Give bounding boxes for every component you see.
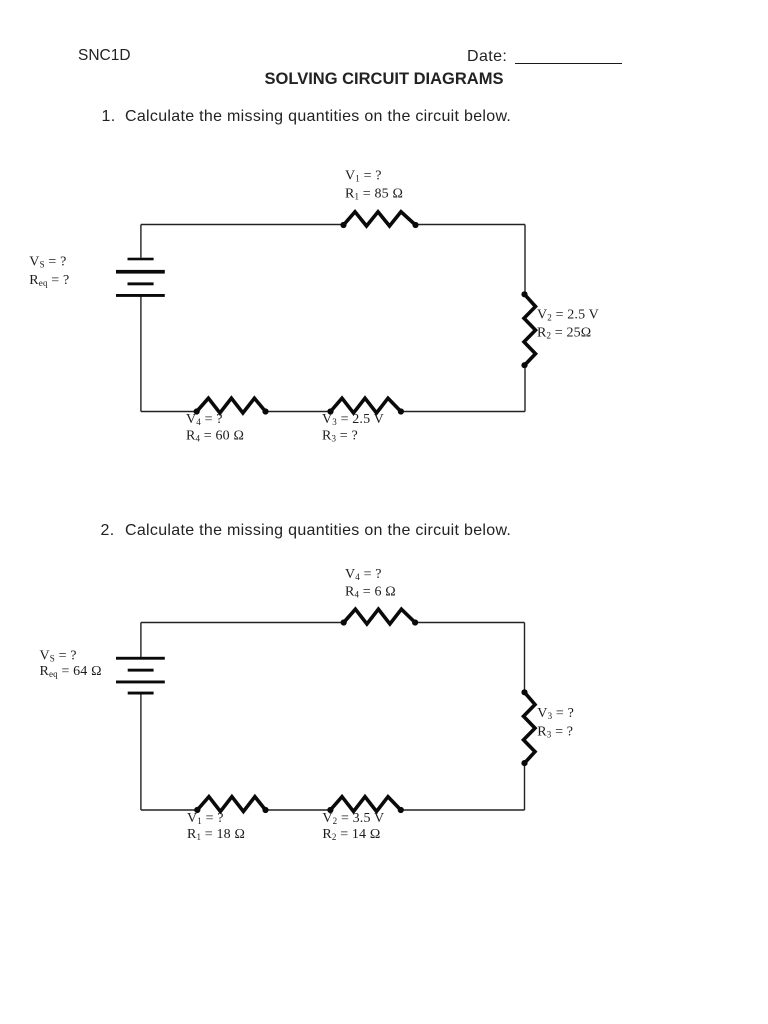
svg-text:V4 = ?: V4 = ? xyxy=(186,412,223,427)
svg-text:VS = ?: VS = ? xyxy=(40,648,77,663)
battery V2 short plate 1 xyxy=(128,669,154,672)
resistor R2 zigzag circuit 2 xyxy=(330,797,400,812)
node dot R4 right circuit 2 xyxy=(412,619,418,625)
wire right lower segment xyxy=(524,763,526,810)
node dot R4 right xyxy=(262,408,268,414)
svg-text:R2 = 14 Ω: R2 = 14 Ω xyxy=(322,827,380,842)
wire right lower segment xyxy=(524,365,526,411)
date blank line xyxy=(515,63,622,64)
node dot R1 left xyxy=(340,222,346,228)
node dot R2 left circuit 2 xyxy=(327,807,333,813)
header Date: xyxy=(467,48,507,66)
svg-text:R1 = 85 Ω: R1 = 85 Ω xyxy=(345,187,403,202)
svg-text:V1 = ?: V1 = ? xyxy=(187,811,224,826)
svg-text:R4 = 60 Ω: R4 = 60 Ω xyxy=(186,429,244,444)
svg-text:R3 = ?: R3 = ? xyxy=(537,725,573,740)
battery V2 long plate 1 xyxy=(116,657,165,660)
wire top-left segment xyxy=(141,622,344,624)
node dot R2 top xyxy=(521,291,527,297)
battery V2 short plate 2 xyxy=(128,692,154,695)
node dot R3 top circuit 2 xyxy=(521,689,527,695)
node dot R3 left xyxy=(327,408,333,414)
wire bottom-right segment xyxy=(401,809,525,811)
wire bottom-right segment xyxy=(401,411,525,413)
resistor R3 zigzag circuit 2 xyxy=(524,692,536,763)
question 1 text xyxy=(102,108,116,126)
wire left upper segment xyxy=(140,623,142,659)
svg-text:V3 = 2.5 V: V3 = 2.5 V xyxy=(322,412,384,427)
resistor R3 zigzag xyxy=(331,398,401,413)
svg-text:V2 = 2.5 V: V2 = 2.5 V xyxy=(537,307,599,322)
resistor R4 zigzag xyxy=(197,398,266,413)
wire top-right segment xyxy=(416,224,526,226)
node dot R2 right circuit 2 xyxy=(398,807,404,813)
wire left lower segment xyxy=(140,693,142,810)
svg-text:V1 = ?: V1 = ? xyxy=(345,169,382,184)
svg-text:V3 = ?: V3 = ? xyxy=(537,706,574,721)
svg-text:R2 = 25Ω: R2 = 25Ω xyxy=(537,325,591,340)
battery V1 long plate 2 xyxy=(116,294,165,297)
node dot R1 right xyxy=(412,222,418,228)
node dot R1 right circuit 2 xyxy=(262,807,268,813)
node dot R3 bottom circuit 2 xyxy=(521,760,527,766)
wire bottom-middle segment xyxy=(266,809,331,811)
resistor R2 zigzag xyxy=(524,294,536,365)
wire bottom-left segment xyxy=(141,411,197,413)
node dot R3 right xyxy=(398,408,404,414)
svg-text:V4 = ?: V4 = ? xyxy=(345,567,382,582)
wire right upper segment xyxy=(524,623,526,693)
svg-text:R3 = ?: R3 = ? xyxy=(322,429,358,444)
svg-text:R1 = 18 Ω: R1 = 18 Ω xyxy=(187,827,245,842)
battery V2 long plate 2 xyxy=(116,681,165,684)
svg-text:R4 = 6 Ω: R4 = 6 Ω xyxy=(345,584,396,599)
svg-text:Req = 64 Ω: Req = 64 Ω xyxy=(40,664,102,679)
title xyxy=(0,70,768,89)
wire bottom-middle segment xyxy=(266,411,331,413)
header course code SNC1D xyxy=(78,47,131,65)
resistor R1 zigzag xyxy=(344,212,416,226)
wire top-right segment xyxy=(415,622,524,624)
node dot R2 bottom xyxy=(521,362,527,368)
wire right upper segment xyxy=(524,225,526,295)
wire left lower segment xyxy=(140,295,142,411)
wire top-left segment xyxy=(141,224,344,226)
battery V1 short plate 2 xyxy=(128,282,154,285)
svg-text:Req = ?: Req = ? xyxy=(29,273,69,288)
wire bottom-left segment xyxy=(141,809,197,811)
question 2 text xyxy=(101,522,115,540)
node dot R4 left xyxy=(194,408,200,414)
svg-text:V2 = 3.5 V: V2 = 3.5 V xyxy=(322,811,384,826)
wire left upper segment xyxy=(140,225,142,258)
resistor R1 zigzag circuit 2 xyxy=(197,797,265,812)
resistor R4 zigzag circuit 2 xyxy=(344,609,415,624)
battery V1 short plate 1 xyxy=(128,258,154,261)
battery V1 long plate 1 xyxy=(116,270,165,274)
node dot R1 left circuit 2 xyxy=(194,807,200,813)
node dot R4 left circuit 2 xyxy=(341,619,347,625)
svg-text:VS = ?: VS = ? xyxy=(29,255,66,270)
